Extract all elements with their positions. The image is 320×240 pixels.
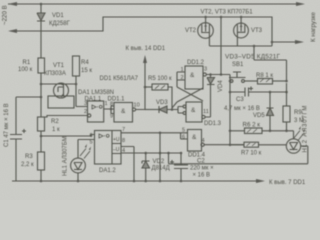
node VT3 drain	[240, 16, 243, 19]
wire bypass loop to source bus	[253, 45, 287, 81]
node VD5 bottom	[269, 130, 272, 133]
label & DD1.1	[121, 108, 126, 115]
resistor R8	[244, 79, 286, 85]
label R4	[81, 60, 92, 74]
node C3 left	[229, 91, 232, 94]
wire DD1.2 inputs	[177, 72, 185, 87]
label VT2 VT3 type	[201, 10, 254, 16]
label VT1	[44, 63, 66, 77]
gate DD1.4	[188, 130, 205, 152]
wire top mains rail	[13, 3, 302, 5]
label VD1	[49, 13, 71, 27]
node rail HL1	[77, 180, 80, 183]
wire divider to pin6	[41, 135, 95, 137]
pin labels DA1.1	[84, 101, 108, 115]
resistor R1	[38, 58, 45, 73]
node DD1.4 out / R7	[229, 144, 232, 147]
label VD4	[218, 80, 224, 92]
capacitor C2	[170, 153, 188, 181]
labels VT2 VT3	[185, 28, 263, 34]
pin labels DD1.4	[182, 128, 205, 145]
wire from rail2 to gate row	[220, 16, 223, 75]
gate DD1.2	[185, 66, 206, 89]
node VT2 drain	[204, 16, 207, 19]
label C2	[190, 159, 214, 179]
wire DA1.1 out	[104, 106, 114, 114]
label SB1	[232, 62, 244, 68]
label DD1.1	[108, 97, 126, 103]
node R6 column	[229, 130, 232, 133]
label & DD1.4	[192, 134, 197, 141]
label HL2	[303, 105, 309, 153]
wire R2 bottom	[40, 131, 42, 152]
wire DD1.2 out row	[206, 74, 230, 76]
diode VD3	[159, 106, 178, 113]
arrow right load return	[295, 40, 304, 44]
label DA1 LM358N	[78, 90, 114, 96]
wire DA1.2 pin8	[121, 147, 134, 182]
wire logic feed row	[145, 109, 159, 111]
wire gate column	[229, 75, 231, 145]
diode VD5	[267, 92, 274, 131]
wire to DD1.3 inputs	[178, 107, 184, 114]
node VD5 top	[269, 91, 272, 94]
resistor R7	[230, 142, 286, 147]
label VD2	[152, 159, 170, 172]
label DD1.2	[187, 60, 205, 66]
wire VT1 drain stub	[60, 83, 62, 84]
label DD1 К561ЛА7	[100, 76, 139, 82]
button SB1	[229, 72, 246, 82]
label DD1.4	[188, 153, 206, 159]
label DA1.1	[85, 97, 102, 103]
pin labels DD1.1	[110, 102, 140, 120]
wire DA1.2 out row	[121, 133, 188, 139]
node R9 bottom	[285, 130, 288, 133]
resistor R4	[73, 56, 80, 84]
node R5 tap	[144, 86, 147, 89]
diode VD4	[207, 75, 215, 86]
wire DD1.1 out to supply node	[136, 62, 145, 110]
gate DD1.1	[114, 103, 136, 123]
node top rail / VD1 branch	[40, 3, 43, 6]
transistor VT1	[54, 83, 69, 98]
label R2	[51, 119, 60, 133]
resistor R3	[38, 152, 45, 181]
node gate column top	[220, 73, 223, 76]
node rail DA	[133, 180, 136, 183]
node C2 top	[180, 152, 183, 155]
label R6	[243, 122, 261, 129]
diode VD1	[37, 13, 45, 22]
label & DD1.3	[191, 107, 196, 114]
resistor R2	[38, 117, 45, 131]
arrow right top (to load)	[296, 2, 305, 6]
wire DA1.2 pin4	[121, 152, 181, 155]
arrow bottom rail	[256, 179, 265, 183]
label К нагрузке	[310, 11, 317, 42]
wire drain row	[41, 84, 88, 107]
arrow left second rail	[8, 29, 17, 33]
op-amp DA1.1	[88, 101, 104, 122]
wire supply drop	[159, 133, 161, 181]
node rail R3	[40, 180, 43, 183]
node supply drop top	[159, 132, 162, 135]
transistor VT3	[234, 17, 249, 46]
label C3 value	[224, 106, 260, 112]
label R3	[21, 154, 34, 168]
wire VD1 branch	[40, 4, 42, 58]
pin label 11	[203, 109, 209, 115]
label DD1.3	[204, 121, 222, 127]
pin labels DA1.2	[90, 127, 126, 154]
wire crossing X	[172, 87, 203, 108]
op-amp DA1.2	[95, 131, 122, 165]
label ~220 V	[2, 5, 9, 25]
resistor R9	[283, 83, 290, 131]
node VD4 tap	[209, 73, 212, 76]
node wire/DD11	[144, 108, 146, 110]
wire DD1.4 out	[204, 144, 244, 146]
wire second rail (neutral / stepped)	[13, 17, 297, 42]
node rail C2	[180, 180, 183, 183]
node SB1 left	[229, 80, 232, 83]
node VD3/R5	[171, 108, 174, 111]
node R4 bottom	[75, 83, 78, 86]
wire pin5 HL1	[78, 139, 95, 141]
node R2/R3	[40, 135, 43, 138]
pin labels DD1.2	[181, 67, 208, 82]
label R5	[148, 76, 172, 82]
label R9	[294, 110, 304, 124]
arrow to pin 14 DD1	[143, 55, 147, 63]
sensor plate E1	[48, 96, 74, 108]
label К выв. 14 DD1	[126, 46, 166, 52]
labels +U -U	[113, 137, 120, 153]
wire DD1.3 out up through VD4	[205, 85, 210, 117]
resistor R6	[230, 128, 294, 134]
wire HL2 return	[167, 146, 308, 164]
capacitor C1	[10, 97, 26, 181]
label DA1.2	[99, 168, 116, 174]
node R1/drain	[40, 83, 43, 86]
gate DD1.3	[183, 102, 205, 122]
node rail VD2	[144, 180, 147, 183]
wire sources row	[209, 42, 272, 46]
label C3	[236, 97, 244, 103]
node rail supply	[159, 180, 162, 183]
node C1 tap	[40, 96, 43, 99]
transistor VT2	[198, 17, 214, 46]
label VD5	[253, 113, 265, 119]
label VD3-VD5	[225, 54, 281, 61]
resistor R5	[145, 84, 172, 110]
zener VD2	[142, 153, 150, 181]
label & DD1.2	[190, 72, 195, 79]
node R8 right	[285, 80, 288, 83]
label R7	[241, 151, 262, 157]
wire op-amp pin2 to R2	[41, 114, 91, 117]
label К выв. 7 DD1	[269, 180, 306, 186]
wire C1 to gate node	[16, 96, 41, 98]
label R8	[256, 73, 273, 79]
label C1	[4, 103, 10, 147]
label HL1	[63, 136, 69, 176]
label VD3	[156, 100, 168, 106]
arrow left top	[8, 2, 19, 6]
LED HL1	[71, 140, 91, 182]
wire R1 bottom column	[40, 73, 42, 117]
label R1	[18, 60, 33, 73]
LED HL2	[286, 126, 305, 153]
node source/neutral	[271, 41, 274, 44]
capacitor C3	[230, 87, 288, 97]
wire bottom rail	[12, 180, 258, 182]
